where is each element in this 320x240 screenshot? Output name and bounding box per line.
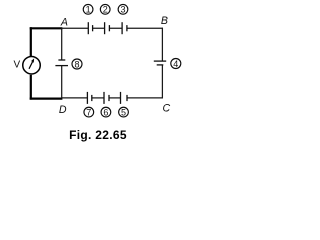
svg-text:2: 2 (103, 5, 108, 15)
svg-text:D: D (59, 104, 67, 116)
svg-text:6: 6 (103, 107, 108, 117)
svg-text:7: 7 (86, 107, 91, 117)
svg-text:C: C (163, 103, 171, 115)
svg-text:1: 1 (86, 5, 91, 15)
svg-text:V: V (14, 59, 21, 70)
svg-text:8: 8 (74, 59, 79, 69)
svg-text:Fig. 22.65: Fig. 22.65 (69, 128, 127, 142)
svg-text:3: 3 (120, 5, 125, 15)
svg-text:A: A (60, 17, 68, 29)
svg-text:4: 4 (173, 59, 178, 69)
svg-text:5: 5 (121, 107, 126, 117)
svg-text:B: B (161, 15, 168, 27)
